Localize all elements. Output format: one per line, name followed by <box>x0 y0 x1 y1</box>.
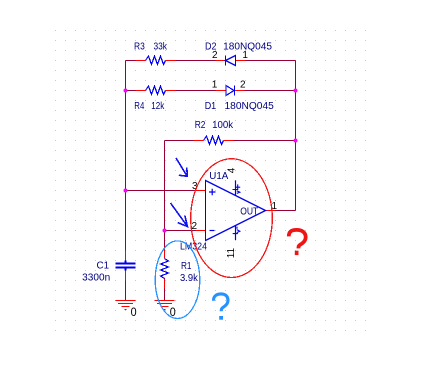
wire left vertical lower (below C1) <box>125 281 127 301</box>
annotation blue arrow 1 (to plus input) <box>176 158 187 176</box>
svg-text:R2: R2 <box>195 120 206 131</box>
diode D2 leads <box>216 60 246 62</box>
junction node at right/R2 row <box>294 139 298 143</box>
resistor R1 zigzag (vertical) <box>161 259 169 279</box>
svg-text:3300n: 3300n <box>82 272 110 283</box>
wire row1 middle segment <box>176 60 216 62</box>
op-amp plus input mark <box>209 189 216 196</box>
wire right vertical <box>295 61 297 211</box>
annotation blue ellipse around R1 <box>155 241 200 319</box>
wire R2 row right <box>234 140 296 142</box>
resistor R2 leads <box>194 140 234 142</box>
op-amp V- power stub pin11 <box>235 226 237 241</box>
svg-text:2: 2 <box>192 221 198 232</box>
annotation blue arrow 2 (to minus input) <box>171 203 188 227</box>
diode D1 body (pointing right) <box>226 86 235 96</box>
ground symbol (under C1) <box>116 301 136 310</box>
op-amp pin3 lead <box>196 190 206 192</box>
wire output row <box>276 210 296 212</box>
wire R1 top <box>164 231 166 249</box>
annotation red question mark <box>289 230 306 249</box>
capacitor C1 body <box>116 261 136 271</box>
resistor R3 zigzag <box>146 56 166 65</box>
op-amp minus input mark <box>210 230 215 232</box>
op-amp pin2 lead <box>196 230 206 232</box>
wire row1 right segment <box>246 60 296 62</box>
op-amp U1A triangle <box>206 181 266 241</box>
resistor R3 leads <box>126 61 276 289</box>
junction node at right/row2 <box>294 89 298 93</box>
svg-text:2: 2 <box>240 80 246 91</box>
wire row2 left segment <box>126 90 136 92</box>
svg-text:180NQ045: 180NQ045 <box>225 101 275 112</box>
resistor R1 leads <box>164 249 166 289</box>
svg-text:C1: C1 <box>97 261 110 272</box>
wire R1 bottom <box>164 289 166 301</box>
svg-text:R4: R4 <box>134 101 144 112</box>
annotation red ellipse around op-amp <box>191 159 273 278</box>
svg-text:1: 1 <box>242 50 248 61</box>
junction node at minus-input/R1 <box>163 229 167 233</box>
svg-text:D1: D1 <box>205 101 217 112</box>
svg-text:12k: 12k <box>151 101 165 112</box>
wire row2 right segment <box>245 90 296 92</box>
ground symbol (under R1) <box>155 301 175 310</box>
op-amp V+ power stub pin4 <box>235 180 237 195</box>
svg-text:100k: 100k <box>212 120 234 131</box>
resistor R4 zigzag <box>146 86 166 95</box>
svg-text:11: 11 <box>226 247 237 258</box>
wire R2 row left <box>165 140 194 142</box>
svg-text:0: 0 <box>131 305 137 319</box>
svg-text:R1: R1 <box>181 261 192 272</box>
annotation blue question mark <box>214 294 228 311</box>
svg-text:4: 4 <box>226 167 237 173</box>
resistor R2 zigzag <box>204 136 224 145</box>
wire left vertical upper <box>125 61 127 251</box>
svg-text:33k: 33k <box>154 42 168 53</box>
wire row1 left segment <box>126 61 296 301</box>
diode D2 body (pointing left) <box>226 56 236 66</box>
svg-text:OUT: OUT <box>240 206 258 217</box>
capacitor C1 leads <box>125 251 127 281</box>
svg-text:3.9k: 3.9k <box>180 273 199 284</box>
junction node at left/plus-input row <box>124 189 128 193</box>
wire minus input row <box>165 230 196 232</box>
diode D1 leads <box>216 90 245 92</box>
wire row2 middle segment <box>176 90 216 92</box>
junction node at left/row2 <box>124 89 128 93</box>
svg-text:2: 2 <box>212 50 218 61</box>
wire plus input row <box>126 190 196 192</box>
svg-text:1: 1 <box>212 80 218 91</box>
wire vertical mid (R2 left down to minus input) <box>164 141 166 231</box>
svg-text:R3: R3 <box>134 42 145 53</box>
resistor R4 leads <box>136 90 176 92</box>
op-amp pin1 output lead <box>266 210 276 212</box>
